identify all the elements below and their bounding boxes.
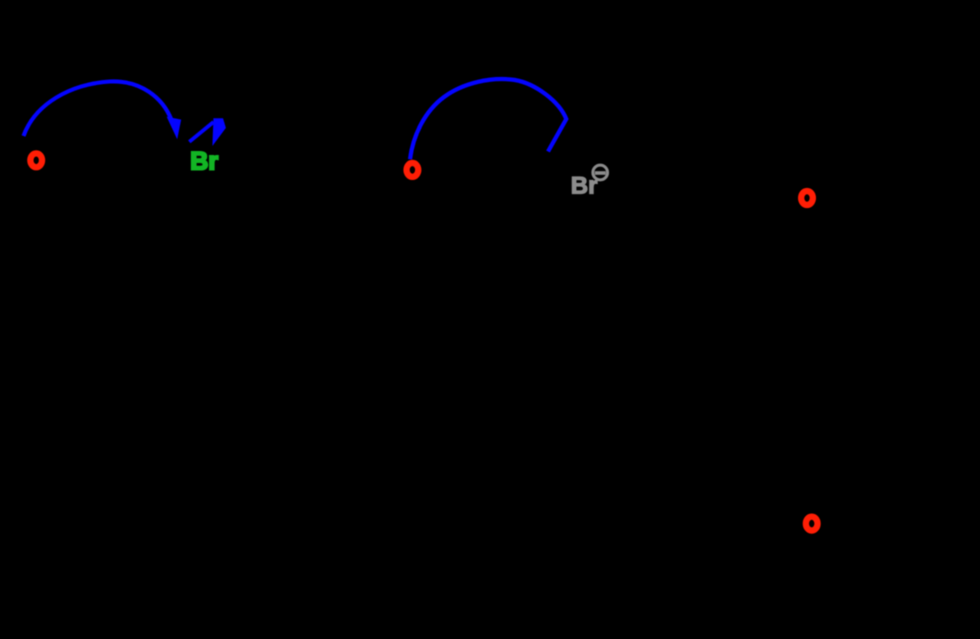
atom label O4 (product oxygen, bottom right molecule) bbox=[806, 517, 818, 531]
atom label Br- (gray bromide leaving group) bbox=[571, 165, 608, 199]
minus charge circle bbox=[593, 165, 608, 180]
curved arrow A1 (from O lone pair to C-Br bond) bbox=[24, 81, 182, 139]
curved arrow A3 (middle molecule, O lone pair toward C) bbox=[410, 79, 566, 159]
svg-text:Br: Br bbox=[190, 148, 218, 176]
small curved arrow A2 (C-Br bond to Br) bbox=[189, 118, 226, 146]
atom label O2 (middle molecule oxygen) bbox=[407, 163, 419, 177]
atom label O3 (product oxygen, top right molecule) bbox=[801, 191, 813, 205]
atom label O1 (carbonyl oxygen, left molecule) bbox=[30, 153, 42, 167]
